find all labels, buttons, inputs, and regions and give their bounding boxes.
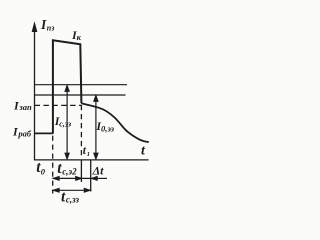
dimension row 1: t_с,э2: [53, 176, 91, 180]
x-axis (time axis): [34, 159, 149, 161]
svg-text:раб: раб: [17, 128, 32, 138]
y-axis (current axis): [34, 30, 36, 160]
double-headed arrow at t1 (from line2 to x-axis): [94, 95, 98, 159]
svg-text:Δt: Δt: [92, 163, 105, 177]
svg-text:с,зз: с,зз: [66, 195, 80, 205]
svg-text:с,э2: с,э2: [62, 167, 77, 177]
timing diagram: electromagnet current vs time: [0, 0, 194, 206]
dimension row 2: t_с,эз: [53, 188, 91, 192]
dashed I_зап level line: [35, 104, 82, 106]
solid extension line below axis at t1 boundary: [80, 160, 82, 182]
svg-text:1: 1: [87, 151, 90, 158]
solid extension line below axis at right dimension boundary: [90, 160, 92, 191]
I_раб step level: [35, 132, 53, 134]
svg-text:0,эз: 0,эз: [101, 123, 115, 133]
level line 2 (lower guide): [35, 94, 126, 96]
y-axis arrowhead: [32, 23, 37, 32]
svg-text:0: 0: [41, 166, 46, 176]
dashed extension of pulse left edge down to dimension rows: [52, 136, 54, 194]
svg-text:зап: зап: [18, 102, 32, 112]
decay curve I_0,эз: [81, 103, 149, 142]
svg-text:пз: пз: [47, 24, 55, 33]
dashed extension of pulse right edge down to x-axis: [80, 105, 82, 159]
current pulse outline (left edge, slanted top, right edge): [53, 40, 82, 133]
Δt outside arrow: [91, 176, 107, 180]
level line 1 (upper guide): [35, 84, 128, 86]
double-headed arrow I_с,эз (from line1 to x-axis): [65, 85, 69, 159]
svg-text:с,эз: с,эз: [59, 120, 71, 129]
svg-text:к: к: [77, 32, 82, 42]
